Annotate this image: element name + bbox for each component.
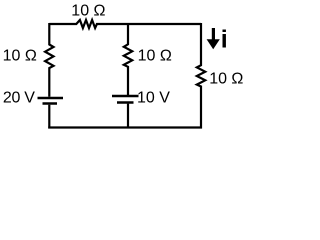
svg-text:10 Ω: 10 Ω (138, 48, 172, 65)
svg-text:10 Ω: 10 Ω (71, 3, 105, 20)
svg-text:i: i (221, 25, 228, 53)
svg-text:10 Ω: 10 Ω (209, 70, 243, 87)
svg-text:20 V: 20 V (3, 90, 35, 107)
svg-text:10 Ω: 10 Ω (3, 48, 37, 65)
svg-text:10 V: 10 V (137, 90, 170, 107)
